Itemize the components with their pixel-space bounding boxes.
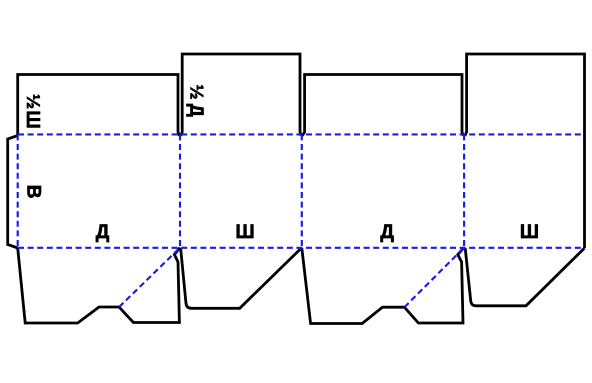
svg-text:½Д: ½Д: [187, 85, 207, 122]
top flap 3 (half-width flap): [302, 75, 463, 136]
bottom flap 2 (under width panel): [181, 248, 302, 308]
fold line: vertical crease between panels 1 and 2: [179, 134, 181, 247]
svg-text:В: В: [22, 185, 43, 199]
top flap 1 (half-width flap): [18, 75, 180, 136]
fold line: vertical crease between panels 3 and 4: [463, 134, 465, 247]
bottom flap 3 (crash-lock bottom under length panel): [302, 248, 464, 324]
fold line: top horizontal crease: [18, 133, 585, 135]
bottom flap 1 (crash-lock bottom under length panel): [18, 248, 180, 323]
svg-text:Д: Д: [96, 222, 110, 243]
glue tab (left side): [8, 136, 18, 249]
svg-text:½Ш: ½Ш: [23, 94, 43, 130]
fold line: vertical crease between panels 2 and 3: [301, 134, 303, 247]
fold line: bottom horizontal crease: [18, 247, 585, 249]
svg-text:Д: Д: [380, 222, 394, 243]
top flap 2 (half-length flap): [181, 54, 302, 136]
fold line: diagonal crease on bottom flap 3: [404, 248, 464, 307]
top flap 4 (half-length flap) and right panel edge: [465, 54, 585, 248]
fold line: diagonal crease on bottom flap 1: [119, 248, 180, 307]
svg-text:Ш: Ш: [520, 222, 539, 243]
svg-text:Ш: Ш: [235, 222, 254, 243]
fold line: vertical crease between glue tab and panel 1: [17, 134, 19, 247]
bottom flap 4 (under width panel): [465, 248, 584, 306]
